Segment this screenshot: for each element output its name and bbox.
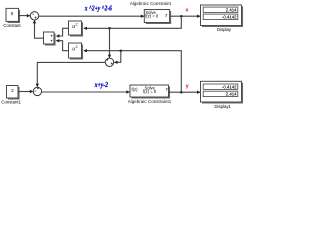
wire Algebraic Constraint to Display (signal x) [170, 15, 201, 18]
block Algebraic Constraint1 [128, 85, 172, 104]
svg-text:Constant: Constant [3, 23, 21, 28]
svg-text:Display1: Display1 [214, 104, 231, 109]
svg-text:2.414: 2.414 [226, 8, 237, 13]
svg-text:Constant1: Constant1 [1, 99, 21, 104]
wire S1 to Algebraic Constraint (top rail) [39, 15, 145, 18]
svg-text:y: y [186, 84, 189, 90]
node junction on u2-top rail [108, 27, 111, 30]
sum S2 (circle, plus top, minus left) [33, 87, 41, 95]
svg-text:x+y-2: x+y-2 [94, 81, 109, 89]
display block Display1 [201, 81, 243, 109]
wire Constant1 to Sum2 [18, 90, 33, 93]
svg-text:6: 6 [11, 11, 14, 17]
wire S2 to Algebraic Constraint1 [42, 90, 131, 93]
wire x down to Sum3 top [108, 28, 111, 58]
svg-text:f(z) = 0: f(z) = 0 [143, 89, 157, 94]
node junction on x rail [180, 15, 183, 18]
svg-text:z: z [165, 12, 167, 17]
svg-text:x: x [186, 7, 189, 13]
node junction on u2-bottom rail [120, 49, 123, 52]
node junction on y rail [180, 91, 183, 94]
svg-text:2.414: 2.414 [226, 92, 237, 97]
wire Algebraic Constraint1 to Display1 (signal y) [169, 91, 201, 94]
svg-text:2: 2 [76, 45, 78, 49]
wire u2-top output to square sum upper input [56, 28, 69, 37]
math block u2 bottom [69, 43, 83, 59]
constant block Constant (value 6) [3, 8, 21, 28]
svg-text:2: 2 [76, 23, 78, 27]
svg-text:Display: Display [217, 27, 232, 32]
sum S1 (circle, minus left, plus bottom) [30, 12, 38, 20]
svg-text:x ^2+y ^2-6: x ^2+y ^2-6 [84, 4, 112, 12]
block Algebraic Constraint [130, 1, 172, 23]
constant block Constant1 (value 2) [1, 86, 21, 105]
wire y down into S3 right input [114, 51, 121, 64]
svg-text:Algebraic Constraint: Algebraic Constraint [130, 1, 172, 6]
display block Display [201, 5, 243, 32]
sum S3 (circle x+y) [105, 58, 113, 66]
wire x feedback down-left to u2 top input [83, 16, 181, 30]
svg-text:z: z [166, 87, 168, 92]
sum block S4 (square, ++) [44, 32, 55, 45]
wire Constant to Sum1 [18, 14, 30, 17]
wire u2-bottom output to square sum lower input [56, 39, 69, 51]
svg-text:Algebraic Constraint1: Algebraic Constraint1 [128, 99, 172, 104]
wire square sum output up into S1 bottom [33, 20, 44, 38]
svg-text:f(z) = 0: f(z) = 0 [145, 14, 159, 19]
wire S3 output left and down into S2 top [36, 62, 106, 87]
wire y feedback up-left to u2 bottom input [83, 49, 181, 92]
math block u2 top [69, 21, 83, 36]
svg-text:2: 2 [11, 88, 14, 94]
svg-text:-0.4142: -0.4142 [222, 84, 237, 89]
svg-text:f(z): f(z) [132, 87, 139, 92]
svg-text:-0.4142: -0.4142 [222, 15, 237, 20]
